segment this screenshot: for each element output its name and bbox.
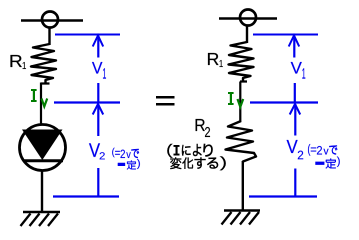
label I current (right) — [228, 92, 234, 105]
label V2 (right) — [287, 140, 304, 159]
node line middle (right, blue) — [250, 101, 318, 103]
node line top (right, blue) — [253, 34, 318, 36]
current source CS1 (left) — [42, 12, 58, 28]
diode D1 triangle (left) — [22, 130, 63, 161]
node line middle (left, blue) — [54, 101, 120, 103]
arrow V1 shaft upper (left) — [97, 36, 99, 58]
wire source to R1 (right) — [246, 25, 248, 43]
wire R1 to R2 (right) — [240, 82, 247, 123]
wire source to R1 (left) — [48, 27, 50, 45]
arrow V2 shaft lower (right) — [294, 169, 296, 197]
label I current (left) — [31, 89, 37, 102]
note line2 変化する） (right) — [170, 157, 225, 170]
resistor R2 (right) — [226, 121, 257, 162]
arrow V1 shaft lower (right) — [294, 83, 296, 102]
label V1 (right) — [291, 62, 306, 79]
label V1 (left) — [92, 62, 106, 79]
current arrow I (left) — [42, 99, 48, 107]
label V2 (left) — [89, 143, 105, 159]
wire R1 to diode (left) — [41, 83, 50, 125]
arrow V2 shaft lower (left) — [97, 168, 99, 196]
value label (=2vで一定) (right) — [308, 144, 340, 168]
resistor R1 (right) — [229, 42, 254, 82]
label R1 (left) — [11, 55, 26, 69]
arrow V1 head (left) — [93, 36, 104, 47]
arrow V1 head (right) — [289, 36, 300, 47]
wire diode to ground (left) — [41, 170, 43, 212]
current arrow I (right) — [238, 99, 244, 107]
value label (=2vで一定) (left) — [112, 148, 140, 170]
label R1 (right) — [208, 53, 223, 67]
wire top rail (right) — [219, 17, 277, 20]
node line bottom (right, blue) — [249, 195, 317, 197]
arrow V2 shaft upper (right) — [294, 104, 296, 136]
wire top rail (left) — [21, 19, 83, 22]
ground (right) — [222, 211, 261, 225]
equals sign — [156, 96, 175, 106]
wire R2 to ground (right) — [242, 161, 244, 211]
arrow V1 shaft upper (right) — [293, 36, 295, 58]
arrow V2 head (left) — [93, 104, 104, 115]
diode D1 circle (left) — [20, 125, 66, 171]
ground (left) — [21, 212, 61, 226]
diode D1 cathode bar (left) — [24, 159, 63, 162]
node line bottom (left, blue) — [53, 195, 119, 197]
label R2 (right) — [196, 119, 210, 137]
arrow V1 shaft lower (left) — [97, 83, 99, 102]
arrow V2 shaft upper (left) — [97, 104, 99, 136]
current source CS2 (right) — [240, 10, 256, 26]
node line top (left, blue) — [55, 34, 120, 36]
note line1 （Iにより (right) — [167, 144, 212, 158]
arrow V2 head (right) — [290, 104, 301, 115]
resistor R1 (left) — [31, 44, 56, 84]
